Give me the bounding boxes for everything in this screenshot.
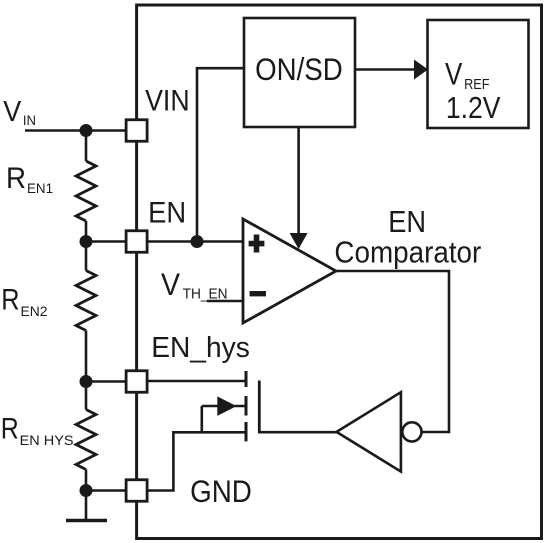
svg-text:VIN: VIN	[145, 85, 190, 118]
wire inverter output to MOSFET gate	[259, 431, 337, 434]
svg-text:1.2V: 1.2V	[446, 91, 501, 125]
wire MOSFET body to source	[201, 406, 204, 432]
node VIN junction dot	[80, 124, 93, 137]
pin GND	[126, 480, 147, 502]
inverter gate	[337, 392, 422, 471]
svg-text:R: R	[6, 162, 26, 195]
pin EN_hys	[126, 371, 147, 393]
svg-text:V: V	[445, 56, 462, 92]
pin EN	[126, 231, 147, 253]
node EN rail junction dot	[80, 235, 93, 248]
wire comparator output to inverter input	[335, 271, 449, 432]
transistor Q1 channel segments	[245, 371, 248, 441]
wire VTH_EN to comparator - input	[207, 300, 243, 303]
wire left rail segments	[85, 131, 88, 521]
svg-text:R: R	[1, 283, 19, 316]
wire ON/SD bottom arrow into comparator	[290, 127, 308, 249]
IC boundary U1	[137, 5, 542, 539]
MOSFET body arrow	[202, 396, 246, 416]
wire MOSFET source	[173, 431, 246, 434]
svg-text:GND: GND	[190, 474, 252, 509]
resistor REN2	[76, 271, 96, 331]
wire rail to EN_hys pin	[86, 380, 126, 383]
transistor Q1 NMOS gate bar	[258, 381, 261, 434]
svg-text:EN_hys: EN_hys	[151, 332, 250, 364]
node EN junction dot	[191, 235, 204, 248]
wire ON/SD left to EN node	[197, 68, 244, 241]
wire EN pin to comparator + input	[147, 240, 243, 243]
wire rail to EN pin	[86, 240, 126, 243]
node GND rail junction dot	[80, 484, 93, 497]
svg-text:EN: EN	[388, 205, 426, 239]
svg-text:EN2: EN2	[21, 303, 48, 319]
op-amp EN comparator	[243, 219, 336, 323]
wire GND pin up to MOSFET source	[147, 431, 173, 491]
ground	[66, 519, 107, 523]
ON/SD block	[244, 18, 355, 127]
svg-text:V: V	[161, 267, 180, 302]
svg-text:TH_EN: TH_EN	[183, 287, 228, 303]
svg-text:EN1: EN1	[27, 180, 53, 196]
resistor REN HYS	[76, 410, 96, 470]
svg-text:R: R	[1, 412, 19, 445]
pin VIN	[126, 120, 147, 142]
svg-text:EN HYS: EN HYS	[20, 432, 74, 448]
svg-text:IN: IN	[23, 113, 36, 128]
svg-text:EN: EN	[148, 196, 186, 229]
wire ON/SD to VREF with arrow	[355, 60, 428, 80]
VREF block	[428, 20, 529, 128]
wire EN_hys pin to MOSFET drain	[147, 380, 246, 383]
svg-text:ON/SD: ON/SD	[255, 52, 343, 87]
resistor REN1	[76, 161, 96, 221]
wire rail to GND pin	[86, 489, 126, 492]
svg-text:Comparator: Comparator	[334, 236, 481, 270]
node EN_hys rail junction dot	[80, 375, 93, 388]
svg-text:V: V	[3, 96, 22, 128]
wire VIN input	[25, 129, 126, 132]
